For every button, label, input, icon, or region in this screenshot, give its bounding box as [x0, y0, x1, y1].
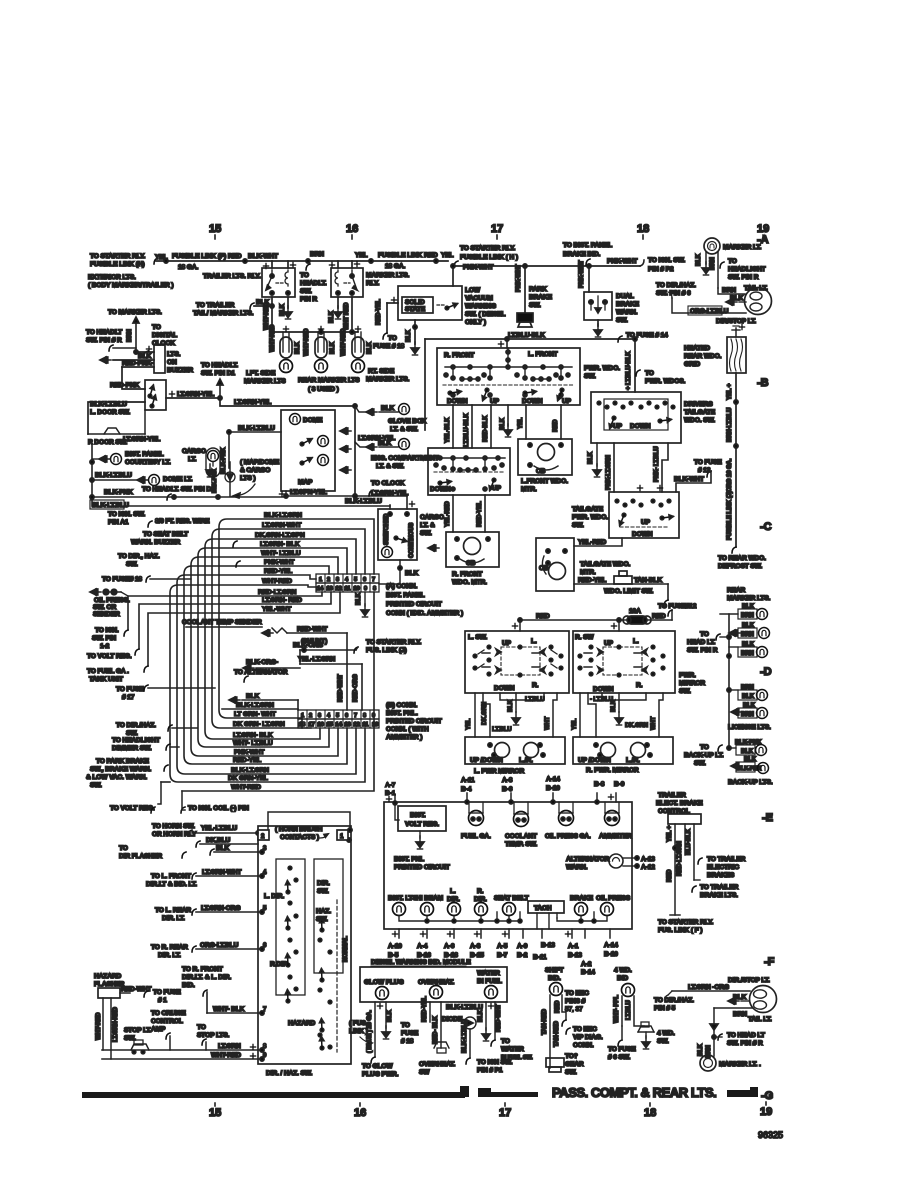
svg-text:18 GA.: 18 GA.: [385, 263, 405, 270]
svg-text:RED-YEL: RED-YEL: [376, 299, 382, 325]
indicator lamps: [393, 903, 614, 916]
svg-text:4 WD.: 4 WD.: [614, 967, 632, 974]
svg-text:COOLANT: COOLANT: [505, 833, 537, 840]
svg-text:TO DIR./HAZ.: TO DIR./HAZ.: [654, 997, 694, 1004]
bottom border bar right segment: [727, 1090, 752, 1097]
svg-text:STOP LT.: STOP LT.: [124, 1027, 152, 1034]
svg-text:TO STARTER RLY.: TO STARTER RLY.: [460, 245, 516, 252]
grid column number 15 bottom: [209, 1103, 221, 1119]
svg-text:BLK: BLK: [406, 329, 412, 342]
long vertical wire to defrost switch: [718, 373, 766, 570]
svg-text:LT. & SW.: LT. & SW.: [376, 463, 404, 470]
stubs above inst panel box: [385, 782, 616, 820]
svg-text:YEL-BLK: YEL-BLK: [445, 417, 451, 443]
svg-text:LT.GRN-YEL: LT.GRN-YEL: [234, 399, 271, 406]
svg-text:10: 10: [354, 586, 360, 592]
svg-text:WHT-RED: WHT-RED: [231, 784, 261, 791]
svg-text:IND.: IND.: [182, 982, 195, 989]
svg-text:18: 18: [299, 722, 305, 728]
label TO DIR/HAZ SW PIN 6: [656, 282, 696, 297]
svg-text:FUS. LINK ( F ): FUS. LINK ( F ): [658, 927, 702, 934]
grid column number 19 top: [757, 223, 769, 239]
wire RED-PNK to door switch: [110, 367, 145, 389]
svg-text:WDO. MTR.: WDO. MTR.: [452, 579, 487, 586]
svg-text:TO VOLT REG.: TO VOLT REG.: [110, 805, 155, 812]
grid column number 18 top: [637, 223, 649, 239]
svg-text:L.: L.: [450, 888, 456, 895]
svg-text:BLK: BLK: [696, 253, 702, 266]
svg-text:A-7: A-7: [385, 782, 396, 789]
svg-text:WHT- LT.BLU: WHT- LT.BLU: [261, 550, 301, 557]
svg-text:SENDER: SENDER: [93, 611, 120, 618]
wire LT.GRN-YEL from L door switch: [166, 391, 357, 408]
svg-text:TO FUSE: TO FUSE: [608, 1046, 636, 1053]
svg-text:RED-YEL: RED-YEL: [422, 996, 428, 1022]
svg-text:-B: -B: [757, 377, 769, 389]
svg-text:WHT-RED: WHT-RED: [211, 1052, 241, 1059]
wire loop LT.GRN-BLK row4: [198, 541, 347, 747]
svg-text:TO IGN. SW.: TO IGN. SW.: [108, 511, 145, 518]
svg-text:WHT-RED: WHT-RED: [96, 1012, 102, 1040]
svg-text:12: 12: [354, 722, 360, 728]
svg-text:DK GRN-YEL: DK GRN-YEL: [228, 775, 268, 782]
svg-text:A-13: A-13: [641, 856, 655, 863]
wire marker bus: [270, 330, 358, 334]
diesel warning module: [360, 959, 507, 1002]
svg-text:RED-LT.GRN: RED-LT.GRN: [677, 841, 683, 876]
svg-text:CB: CB: [466, 560, 476, 567]
svg-text:RED: RED: [652, 613, 666, 620]
wire LT.GRN-ORG pin 5: [155, 905, 267, 922]
indicator lamp row labels: [388, 888, 631, 903]
svg-text:WARN.: WARN.: [616, 309, 638, 316]
svg-text:16: 16: [318, 722, 324, 728]
svg-text:6: 6: [363, 577, 366, 583]
svg-text:LT.BLU: LT.BLU: [492, 727, 512, 733]
svg-text:L. DIR.: L. DIR.: [264, 893, 284, 900]
svg-text:FUSIBLE LINK: FUSIBLE LINK: [378, 252, 422, 259]
svg-text:TO TRAILER: TO TRAILER: [196, 302, 235, 309]
svg-text:11: 11: [363, 722, 369, 728]
label TO PARK BRAKE SW BRAKE WARN: [86, 758, 168, 789]
label TO FUSE 17: [116, 685, 215, 701]
svg-text:FUSIBLE LINK (J): FUSIBLE LINK (J): [727, 491, 733, 540]
svg-text:YEL: YEL: [572, 718, 578, 730]
svg-text:LT.GRN- BLK: LT.GRN- BLK: [260, 541, 300, 548]
svg-text:DOME: DOME: [303, 417, 323, 424]
svg-text:B-15: B-15: [470, 952, 484, 959]
svg-text:TO FUSE# 18: TO FUSE# 18: [102, 576, 142, 583]
svg-text:# 6 SW.: # 6 SW.: [608, 1054, 631, 1061]
svg-text:BRN: BRN: [127, 329, 133, 342]
connector A strip: [316, 574, 379, 592]
wire loop DK.GRN-LT.GPN row3: [205, 532, 356, 739]
dir/haz switch outer box: [256, 812, 352, 1077]
svg-text:BLU-BLK: BLU-BLK: [686, 828, 692, 855]
tailgate window motor: [536, 538, 630, 591]
ground BLK drivers tailgate: [588, 443, 601, 477]
svg-text:16: 16: [346, 223, 358, 235]
svg-text:BRN: BRN: [741, 613, 754, 619]
wire loop LT.GRN-WHT row2: [212, 522, 365, 728]
wire WHT-BLK pin 7: [182, 966, 267, 1015]
svg-text:A-8: A-8: [502, 777, 513, 784]
svg-text:OR HORN RLY: OR HORN RLY: [152, 831, 197, 838]
svg-text:BLK: BLK: [330, 341, 336, 354]
svg-text:TO FUSE: TO FUSE: [116, 686, 144, 693]
label TO FUEL GA TANK UNIT: [87, 666, 148, 683]
label TO STARTER RLY FUSIBLE LINK (H) center: [454, 245, 518, 271]
svg-text:( FUS.: ( FUS.: [349, 1020, 368, 1027]
lights-on buzzer: [100, 345, 193, 374]
label TO IGN SW PIN 1-2: [92, 627, 128, 650]
svg-text:BLK: BLK: [246, 693, 260, 700]
svg-text:96325: 96325: [758, 1130, 783, 1140]
svg-text:TO HEADLT. SW. PIN D2: TO HEADLT. SW. PIN D2: [142, 486, 215, 493]
svg-text:BRAKE: BRAKE: [616, 301, 640, 308]
svg-text:REAR: REAR: [727, 587, 746, 594]
svg-text:L.: L.: [633, 638, 639, 645]
svg-text:GRID: GRID: [684, 361, 700, 368]
svg-text:L./R.: L./R.: [519, 757, 533, 764]
tailgate power window switch: [572, 485, 679, 538]
svg-text:TO EEC: TO EEC: [565, 990, 589, 997]
svg-text:2: 2: [327, 577, 330, 583]
svg-text:TO DIR./HAZ.: TO DIR./HAZ.: [116, 722, 156, 729]
svg-text:CARGO: CARGO: [182, 448, 206, 455]
svg-text:TAIL/ MARKER LTS.: TAIL/ MARKER LTS.: [193, 310, 254, 317]
svg-text:A-14: A-14: [604, 942, 618, 949]
wires to R front motor: [445, 495, 485, 532]
svg-text:DIODE: DIODE: [442, 1016, 463, 1023]
svg-text:TO FUSE: TO FUSE: [694, 459, 722, 466]
svg-text:TEMP. SW.: TEMP. SW.: [505, 841, 537, 848]
svg-text:IND.: IND.: [548, 975, 561, 982]
svg-text:# 1: # 1: [158, 997, 167, 1004]
svg-text:MARKER LTS: MARKER LTS: [244, 378, 286, 385]
svg-text:A-1: A-1: [568, 943, 579, 950]
svg-text:REAR WDO.: REAR WDO.: [684, 353, 722, 360]
horn brush contact 1: [275, 826, 348, 841]
svg-text:DOWN: DOWN: [630, 423, 651, 430]
svg-text:BLK: BLK: [280, 303, 286, 316]
relay K2 marker lts rly: [329, 261, 409, 297]
svg-text:SOLID: SOLID: [405, 299, 425, 306]
svg-text:DIR.LT & IND. LT.: DIR.LT & IND. LT.: [146, 881, 197, 888]
fuel gauge: [461, 802, 491, 840]
wire PNK-LT.BLU: [654, 443, 668, 492]
svg-text:TO IGN.: TO IGN.: [95, 627, 119, 634]
wire BLK-LT.GRN row connector B: [222, 702, 298, 709]
svg-text:7: 7: [372, 577, 375, 583]
svg-text:LT.GRN- RED: LT.GRN- RED: [262, 597, 302, 604]
svg-text:MARKER LTS.: MARKER LTS.: [366, 376, 410, 383]
svg-text:ON: ON: [167, 359, 177, 366]
svg-text:BLK: BLK: [138, 353, 152, 360]
solid state module U1: [373, 286, 462, 350]
wire DK.BLU: [196, 837, 258, 847]
svg-text:PNK-WHT: PNK-WHT: [516, 264, 522, 292]
svg-text:7: 7: [354, 713, 357, 719]
svg-text:CARGO: CARGO: [420, 514, 444, 521]
tach box: [528, 901, 564, 929]
svg-text:BLK-WHT: BLK-WHT: [674, 476, 704, 483]
svg-text:PNK-WHT: PNK-WHT: [234, 749, 264, 756]
svg-text:TO STARTER RLY.: TO STARTER RLY.: [658, 919, 714, 926]
svg-text:( BODY MARKER/TRAILER ): ( BODY MARKER/TRAILER ): [88, 282, 173, 289]
label TO DIR HAZ SW lower: [116, 722, 197, 737]
label TO DIR HAZ SW upper: [118, 553, 240, 568]
svg-text:DOWN: DOWN: [522, 398, 543, 405]
svg-text:10: 10: [372, 722, 378, 728]
svg-text:TO MARKER LTS.: TO MARKER LTS.: [108, 309, 162, 316]
marker light top right: [696, 238, 765, 288]
coolant temp gauge: [505, 802, 537, 848]
svg-text:-E: -E: [762, 812, 773, 824]
wire loop PNK-WHT row6: [184, 559, 347, 764]
label TO IGN COIL: [181, 791, 249, 813]
dome map lamp box: [279, 410, 351, 498]
oil press gauge: [545, 802, 591, 840]
svg-text:DK.GRN-LT.GPN: DK.GRN-LT.GPN: [255, 532, 305, 539]
svg-text:YEL-LT.BLU: YEL-LT.BLU: [201, 825, 237, 832]
svg-text:DIR.: DIR.: [317, 880, 330, 887]
svg-text:-G: -G: [761, 1090, 773, 1102]
svg-text:4 WD.: 4 WD.: [657, 1030, 675, 1037]
grid column number 16 top: [346, 223, 358, 239]
grid column number 16 bottom: [354, 1103, 366, 1119]
svg-text:TO: TO: [119, 845, 128, 852]
svg-text:TRAILER LTS. RLY.: TRAILER LTS. RLY.: [203, 273, 261, 280]
svg-text:RED-ORG: RED-ORG: [353, 674, 359, 702]
svg-text:DUAL: DUAL: [616, 293, 634, 300]
svg-text:B-11: B-11: [533, 954, 547, 961]
label TO FUSE 18: [102, 576, 191, 583]
svg-text:DIR./STOP LT.: DIR./STOP LT.: [728, 977, 770, 984]
ground R mirror: [615, 712, 623, 725]
svg-text:PASS. COMPT. & REAR LTS.: PASS. COMPT. & REAR LTS.: [552, 1085, 716, 1100]
svg-text:3: 3: [318, 713, 321, 719]
svg-text:MIRROR: MIRROR: [679, 680, 705, 687]
L mirror wires: [466, 693, 557, 737]
label TO TRAILER TAIL/MARKER LTS: [193, 302, 254, 317]
svg-text:SW.: SW.: [300, 288, 312, 295]
lamp right side marker: [341, 326, 410, 383]
svg-text:TRAILER: TRAILER: [658, 792, 686, 799]
svg-text:( HORN BRUSH: ( HORN BRUSH: [275, 826, 323, 833]
R door switch: [88, 410, 160, 446]
svg-text:B-1: B-1: [385, 790, 396, 797]
svg-text:9: 9: [364, 586, 367, 592]
svg-text:A-6: A-6: [444, 943, 455, 950]
label TO DIR FLASHER: [119, 845, 186, 860]
svg-text:TO: TO: [645, 370, 654, 377]
svg-text:RLY.: RLY.: [366, 280, 379, 287]
svg-text:TO ALTERNATOR: TO ALTERNATOR: [234, 669, 288, 676]
svg-text:SW.: SW.: [420, 530, 432, 537]
svg-text:TO GLOW: TO GLOW: [362, 1063, 393, 1070]
svg-text:PIN R: PIN R: [300, 296, 317, 303]
svg-text:& LOW VAC. WARN.: & LOW VAC. WARN.: [86, 774, 147, 781]
svg-text:BLK-ORG-: BLK-ORG-: [246, 659, 278, 666]
svg-text:INST. PANEL: INST. PANEL: [386, 592, 425, 599]
wire loop WHT-LT.BLU row5: [191, 550, 338, 756]
svg-text:BRN: BRN: [741, 632, 754, 638]
svg-text:# 12: # 12: [698, 467, 711, 474]
svg-text:RED-WHT: RED-WHT: [496, 1004, 502, 1032]
svg-text:HEAD LT.: HEAD LT.: [687, 639, 716, 646]
svg-text:TO?: TO?: [565, 1053, 578, 1060]
svg-text:PNK-WHT: PNK-WHT: [607, 258, 637, 265]
eng compartment lamp: [355, 406, 439, 496]
svg-text:VACUUM: VACUUM: [465, 295, 493, 302]
svg-text:LT.GRN-YEL: LT.GRN-YEL: [123, 436, 160, 443]
svg-text:HEADLIGHT: HEADLIGHT: [728, 266, 765, 273]
label (A) CONN: [386, 583, 463, 617]
svg-text:B-4: B-4: [461, 786, 472, 793]
svg-text:BLK: BLK: [730, 295, 744, 302]
svg-text:ORG 16 GA.: ORG 16 GA.: [727, 458, 733, 492]
svg-text:PIN # P1: PIN # P1: [477, 1067, 503, 1074]
svg-text:R. SW: R. SW: [575, 634, 594, 641]
svg-text:RED-BLK: RED-BLK: [483, 415, 489, 442]
svg-text:TO STARTER RLY.: TO STARTER RLY.: [366, 639, 422, 646]
heated rear window grid: [684, 324, 746, 373]
lamp interconnect wire: [399, 912, 607, 923]
svg-text:SW., BRAKE WARN.: SW., BRAKE WARN.: [90, 766, 151, 773]
grid column number 18 bottom: [644, 1103, 656, 1119]
ammeter shunt sender: [262, 626, 347, 710]
instrument panel printed circuit box: [384, 802, 632, 929]
svg-text:WATER: WATER: [477, 970, 500, 977]
svg-text:PNK-LT.GRN: PNK-LT.GRN: [606, 455, 612, 490]
svg-text:LTS.: LTS.: [167, 351, 181, 358]
svg-text:# 17: # 17: [122, 694, 135, 701]
svg-text:TO EEC: TO EEC: [573, 1026, 597, 1033]
svg-text:BLK-LT.GRN: BLK-LT.GRN: [264, 512, 302, 519]
label TO HORN SW: [152, 823, 197, 838]
wire YEL-LT.GRN: [298, 650, 362, 710]
cargo lamp switch box: [378, 496, 444, 584]
svg-text:2: 2: [309, 713, 312, 719]
svg-text:A-11: A-11: [461, 777, 475, 784]
svg-text:SW.: SW.: [126, 730, 138, 737]
svg-text:TO CRUISE: TO CRUISE: [151, 1010, 186, 1017]
grid column number 17 top: [491, 223, 503, 239]
svg-text:CONN.: CONN.: [573, 1042, 594, 1049]
svg-text:WHT- LT.BLU: WHT- LT.BLU: [233, 740, 273, 747]
svg-text:BUZZER: BUZZER: [167, 367, 193, 374]
svg-text:BRN-LT.BLU: BRN-LT.BLU: [727, 408, 733, 442]
svg-text:RED-YEL: RED-YEL: [477, 501, 483, 527]
license lights: [728, 685, 771, 731]
dual brake warn switch S2: [579, 260, 640, 337]
svg-text:B-10: B-10: [604, 951, 618, 958]
svg-text:UP /DOWN: UP /DOWN: [470, 757, 503, 764]
dir/haz switch interior: [264, 859, 349, 1052]
svg-text:( 3 USED ): ( 3 USED ): [308, 386, 339, 393]
svg-text:15: 15: [327, 722, 333, 728]
wire LT.GPN-YEL dome bottom: [286, 489, 407, 498]
connector pin labels below inst panel: [388, 942, 618, 976]
svg-text:L. PWR MIRROR: L. PWR MIRROR: [474, 768, 524, 775]
svg-text:VIP DIAG.: VIP DIAG.: [573, 1034, 603, 1041]
svg-text:RED-WHT: RED-WHT: [297, 626, 327, 633]
svg-text:LT.GPN-YEL: LT.GPN-YEL: [290, 489, 327, 496]
svg-text:MARKER LT.: MARKER LT.: [723, 244, 762, 251]
svg-text:R.: R.: [636, 682, 643, 689]
svg-text:NORMAL: NORMAL: [343, 936, 349, 962]
svg-text:18 GA.: 18 GA.: [178, 264, 198, 271]
svg-text:ONLY ): ONLY ): [465, 319, 486, 326]
svg-text:RED- BLK: RED- BLK: [433, 1015, 439, 1044]
svg-text:(B) CONN.: (B) CONN.: [386, 702, 417, 709]
svg-text:TAILGATE: TAILGATE: [572, 506, 604, 513]
svg-text:LT.GRN -ORG: LT.GRN -ORG: [688, 984, 729, 991]
label EXTERIOR LTS: [88, 274, 173, 289]
svg-text:WHT- BLK: WHT- BLK: [213, 1006, 245, 1013]
svg-text:BLK-LT.GRN: BLK-LT.GRN: [231, 767, 269, 774]
wire LT.BLU-BLK pwr window feed: [425, 332, 668, 430]
fuse 10A power mirror feed: [518, 608, 672, 624]
svg-text:EXTERIOR LTS.: EXTERIOR LTS.: [88, 274, 136, 281]
svg-text:10A: 10A: [629, 608, 641, 615]
svg-text:TO HEAD LT: TO HEAD LT: [727, 1032, 765, 1039]
glove box lamp: [355, 404, 427, 434]
svg-text:BRAKE: BRAKE: [570, 895, 594, 902]
svg-text:DOWN: DOWN: [593, 686, 614, 693]
4wd indicator: [608, 967, 644, 1061]
svg-text:SW.: SW.: [126, 561, 138, 568]
svg-text:RED: RED: [424, 252, 438, 259]
svg-text:R DOOR SW.: R DOOR SW.: [88, 439, 127, 446]
svg-text:LFT. SIDE: LFT. SIDE: [246, 370, 276, 377]
wire BLK-PNK row: [90, 489, 286, 499]
svg-text:LT.GRN-YEL: LT.GRN-YEL: [371, 490, 408, 497]
svg-text:GLOVE BOX: GLOVE BOX: [388, 418, 427, 425]
svg-text:BRN: BRN: [722, 287, 736, 294]
svg-text:FUSE # 18: FUSE # 18: [373, 343, 405, 350]
trailer electric brake control: [656, 792, 746, 934]
svg-text:TAILGATE WDO.: TAILGATE WDO.: [580, 561, 630, 568]
svg-text:INST.: INST.: [410, 812, 426, 819]
marker light bottom right: [700, 1055, 761, 1071]
R mirror wires: [572, 693, 663, 737]
svg-text:DK.BLU: DK.BLU: [206, 837, 231, 844]
svg-text:BRAKES: BRAKES: [707, 872, 735, 879]
svg-text:TO HEADLT.: TO HEADLT.: [201, 362, 238, 369]
svg-text:VOLT REG.: VOLT REG.: [405, 821, 439, 828]
svg-text:BLK-WHT: BLK-WHT: [248, 253, 278, 260]
label TO DIGITAL CLOCK: [127, 324, 177, 357]
svg-text:B-9: B-9: [614, 781, 625, 788]
svg-text:BRN: BRN: [741, 651, 754, 657]
svg-text:CONTROL: CONTROL: [151, 1018, 183, 1025]
ground connector A pin 9: [356, 592, 369, 617]
label TO INST PANEL BRAKE IND: [563, 242, 612, 265]
svg-text:SW.: SW.: [584, 373, 596, 380]
svg-text:1: 1: [319, 577, 322, 583]
grid column number 19 bottom: [760, 1102, 772, 1118]
svg-text:BLK-ORG: BLK-ORG: [293, 642, 323, 649]
svg-text:SW. ( DIESEL: SW. ( DIESEL: [465, 311, 505, 318]
svg-text:BLK: BLK: [329, 310, 335, 323]
label TO SEAT BELT WARN BUZZER: [131, 531, 237, 547]
svg-text:SWITCHED: SWITCHED: [384, 513, 390, 545]
grid column number 15 top: [209, 223, 221, 239]
svg-text:TO REAR WDO.: TO REAR WDO.: [718, 555, 766, 562]
svg-text:CONTINOUS: CONTINOUS: [409, 523, 415, 558]
